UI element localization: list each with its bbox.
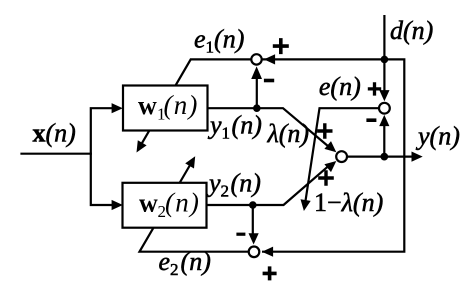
svg-text:(n): (n) — [164, 90, 199, 120]
plus near mixer bottom — [318, 170, 334, 186]
svg-text:x(n): x(n) — [33, 119, 76, 148]
summing circles — [249, 54, 390, 257]
svg-text:y1(n): y1(n) — [207, 111, 262, 143]
wire: mixer output y(n) — [348, 156, 418, 158]
plus near e1 — [273, 38, 289, 54]
arrow w2 adaptation (up-right) — [185, 156, 195, 168]
plus/minus signs — [236, 38, 381, 280]
arrowheads — [112, 54, 423, 256]
wire: y2 output to mixer — [207, 164, 331, 205]
svg-text:y(n): y(n) — [415, 122, 460, 151]
node: output dot — [380, 153, 388, 161]
node: y2 dot — [249, 201, 257, 209]
adaptive filter block W2 — [123, 183, 207, 228]
minus near e(n) — [366, 118, 376, 122]
svg-text:e1(n): e1(n) — [194, 25, 244, 57]
arrow into e1 circle from below — [251, 66, 262, 79]
minus near e1 — [264, 79, 274, 83]
arrow into e1 circle from right — [264, 54, 275, 64]
wire: vertical from output dot up to e(n) circle — [383, 120, 385, 157]
arrow into mixer from y1 — [324, 141, 336, 152]
adaptive filter block W1 — [123, 86, 208, 131]
plus near mixer top — [317, 123, 332, 138]
summer e1 — [251, 54, 261, 64]
svg-text:λ(n): λ(n) — [267, 119, 310, 148]
svg-text:y2(n): y2(n) — [206, 169, 261, 201]
wire: e(n) output and lambda steep arrow — [305, 108, 378, 203]
arrow into e2 circle from above — [249, 233, 259, 244]
arrow into e(n) circle from above (d) — [379, 90, 389, 101]
arrow w1 adaptation (down-left) — [137, 140, 147, 152]
wire: e1 line to right vertical — [262, 59, 404, 251]
minus near e2 — [236, 233, 245, 236]
arrow lambda control (down) — [301, 199, 311, 211]
arrow output y(n) — [412, 152, 423, 162]
wire: e1 feedback diagonal into w1 (hidden behind block) — [140, 59, 251, 146]
node: d dot — [381, 56, 389, 64]
junction dots — [249, 56, 388, 209]
svg-text:(n): (n) — [165, 187, 200, 217]
wire: vertical from y2 dot down to e2 circle — [252, 205, 254, 239]
svg-text:e(n): e(n) — [319, 72, 361, 101]
mixer node — [336, 151, 347, 162]
summer e(n) — [379, 103, 390, 114]
wire: input vertical branch — [91, 107, 114, 206]
wire: input horizontal x(n) — [20, 153, 92, 155]
svg-text:e2(n): e2(n) — [159, 247, 211, 279]
svg-text:1−λ(n): 1−λ(n) — [314, 188, 383, 217]
wire: y1 output to mixer — [208, 108, 332, 148]
svg-text:w: w — [139, 188, 158, 217]
arrow into w1 input — [112, 103, 123, 113]
wire: d(n) vertical — [383, 15, 385, 96]
plus near e(n) — [368, 82, 381, 95]
arrow into mixer from y2 — [324, 161, 336, 172]
wire: e2 feedback diagonal into w2 (hidden behind block) — [140, 162, 249, 252]
plus near e2 — [263, 266, 277, 280]
arrow into e2 circle from right — [262, 247, 273, 257]
arrow into w2 input — [112, 200, 123, 210]
wire: vertical from y1 dot up to e1 circle — [256, 72, 258, 108]
node: y1 dot — [253, 104, 261, 112]
summer e2 — [249, 247, 260, 258]
svg-text:d(n): d(n) — [390, 16, 433, 45]
arrow into e(n) circle from below (y) — [379, 115, 389, 126]
svg-text:w: w — [138, 91, 157, 120]
